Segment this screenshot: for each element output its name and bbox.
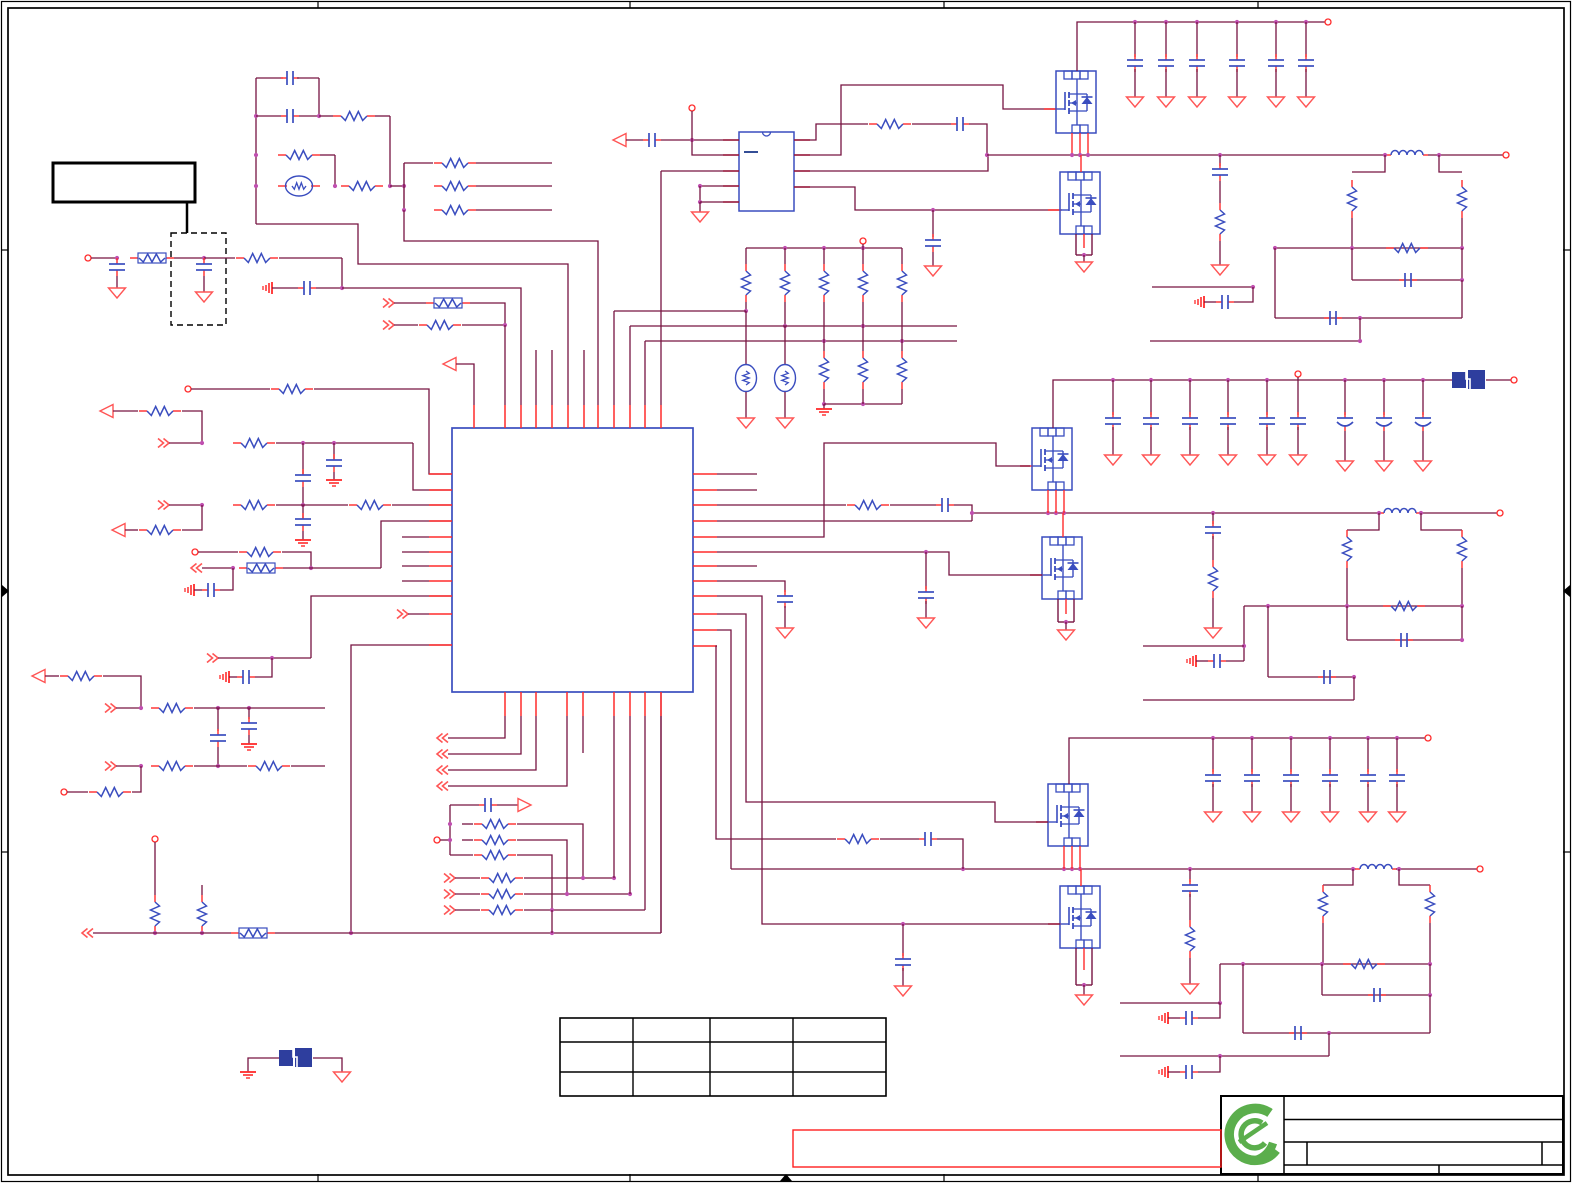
wire to IC pin	[392, 504, 452, 506]
off-page connector	[444, 890, 455, 899]
resistor R27	[481, 890, 523, 899]
wire	[1189, 869, 1191, 882]
capacitor C31	[1368, 988, 1386, 1002]
junction	[1265, 378, 1269, 382]
resistor R49	[1319, 885, 1328, 923]
wire	[174, 257, 204, 259]
resistor R32	[820, 264, 829, 302]
capacitor	[1244, 769, 1260, 787]
capacitor C16	[925, 234, 941, 252]
resistor R16	[60, 672, 102, 681]
connector pin J10	[1503, 152, 1509, 158]
ground	[1182, 984, 1199, 994]
off-page connector	[437, 782, 448, 791]
wire	[311, 596, 452, 658]
wire	[1143, 645, 1244, 647]
wire	[823, 389, 825, 404]
capacitor	[1283, 769, 1299, 787]
junction	[1289, 736, 1293, 740]
junction	[1164, 20, 1168, 24]
junction	[254, 184, 258, 188]
resistor R33	[859, 264, 868, 302]
wire	[1219, 964, 1221, 1003]
wire	[1227, 427, 1229, 455]
junction	[333, 184, 337, 188]
junction	[301, 441, 305, 445]
wire	[1461, 218, 1463, 248]
wire	[299, 115, 319, 117]
wire	[1134, 69, 1136, 97]
wire	[1305, 69, 1307, 97]
wire	[334, 155, 336, 186]
wire	[1120, 1002, 1220, 1004]
junction	[612, 876, 616, 880]
wire	[1329, 784, 1331, 812]
capacitor C26	[1208, 654, 1226, 668]
junction	[1235, 20, 1239, 24]
resistor R37	[898, 351, 907, 389]
wire	[862, 389, 864, 404]
Q6 drain stub	[1080, 869, 1082, 886]
junction	[1327, 1031, 1331, 1035]
input port	[112, 524, 125, 537]
wire to IC pin	[644, 341, 646, 405]
company logo	[1229, 1108, 1276, 1160]
junction	[1358, 339, 1362, 343]
wire	[103, 676, 141, 708]
wire to IC pin	[660, 171, 662, 405]
junction	[1383, 153, 1387, 157]
wire	[1065, 622, 1067, 630]
wire	[390, 185, 404, 187]
junction	[1242, 644, 1246, 648]
wire	[1251, 738, 1253, 772]
capacitor C23	[1205, 521, 1221, 539]
junction	[1218, 1001, 1222, 1005]
wire to IC pin	[413, 443, 452, 490]
node SW3	[731, 868, 1356, 870]
wire to IC pin	[314, 389, 452, 474]
capacitor C18	[1399, 273, 1417, 287]
ground	[777, 418, 794, 428]
wire	[1266, 380, 1268, 415]
capacitor C21	[936, 498, 954, 512]
wire	[1290, 784, 1292, 812]
IC U1 right pins	[693, 474, 717, 646]
wire	[1268, 676, 1354, 678]
junction	[1218, 153, 1222, 157]
resistor R21	[151, 895, 160, 933]
wire	[394, 324, 418, 326]
wire to IC pin	[504, 325, 506, 405]
wire	[1429, 923, 1431, 964]
input port	[443, 358, 456, 371]
wire	[824, 403, 902, 405]
chassis ground	[185, 584, 194, 596]
wire	[937, 839, 963, 869]
polarized capacitor	[1376, 412, 1392, 431]
fuse F3	[239, 563, 283, 573]
wire	[455, 909, 480, 911]
capacitor C10	[237, 670, 255, 684]
junction	[1064, 620, 1068, 624]
node bus fan	[403, 163, 405, 210]
ground	[1322, 812, 1339, 822]
resistor R23	[474, 820, 516, 829]
wire	[524, 893, 630, 895]
capacitor C12	[241, 717, 257, 735]
wire	[517, 840, 567, 894]
wire	[1323, 869, 1353, 885]
wire	[717, 630, 731, 869]
wire	[229, 676, 237, 678]
wire	[272, 287, 298, 289]
wire	[1421, 513, 1462, 530]
ground	[1283, 812, 1300, 822]
wire	[784, 326, 786, 365]
wire	[302, 505, 304, 518]
wire	[692, 111, 739, 155]
wire	[1244, 605, 1462, 607]
wire	[125, 529, 138, 531]
wire	[901, 248, 903, 264]
chassis ground	[1195, 296, 1204, 308]
junction	[200, 931, 204, 935]
capacitor C36	[777, 590, 793, 608]
junction	[822, 402, 826, 406]
wire	[217, 708, 219, 731]
junction	[1226, 378, 1230, 382]
junction	[1149, 378, 1153, 382]
wire	[660, 716, 662, 933]
wire	[784, 248, 786, 264]
Q2 drain stub	[1080, 155, 1082, 172]
capacitor C5	[298, 281, 316, 295]
wire	[1396, 738, 1398, 772]
ground	[1389, 812, 1406, 822]
wire	[375, 115, 390, 117]
resistor R47	[837, 835, 879, 844]
off-page connector	[158, 439, 169, 448]
wire	[1322, 923, 1324, 964]
junction	[448, 838, 452, 842]
wire	[448, 716, 536, 770]
wire	[1189, 380, 1191, 415]
connector pin J15	[1477, 866, 1483, 872]
capacitor C30	[1182, 879, 1198, 897]
capacitor	[1143, 412, 1159, 430]
junction	[1345, 604, 1349, 608]
wire	[1347, 639, 1462, 641]
transistor Q5	[1048, 784, 1088, 846]
wire	[932, 210, 934, 237]
junction	[581, 876, 585, 880]
resistor R24	[474, 836, 516, 845]
wire	[302, 487, 304, 505]
wire to IC pin	[342, 288, 521, 405]
resistor R45	[1458, 530, 1467, 568]
wire	[1275, 22, 1277, 57]
wire to IC pin	[256, 224, 568, 405]
IC U1 top pins	[474, 405, 661, 428]
wire	[319, 115, 333, 117]
wire	[116, 765, 141, 767]
power ground	[240, 1072, 256, 1078]
wire	[524, 877, 614, 879]
junction	[1358, 316, 1362, 320]
resistor R26	[481, 874, 523, 883]
capacitor	[1360, 769, 1376, 787]
ground	[1376, 461, 1393, 471]
junction	[1395, 736, 1399, 740]
resistor R35	[820, 351, 829, 389]
wire	[699, 186, 701, 202]
transistor Q2	[1060, 172, 1100, 234]
wire	[1329, 738, 1331, 772]
wire	[282, 552, 311, 568]
capacitor C11	[210, 729, 226, 747]
junction	[1086, 153, 1090, 157]
node VIN3 rail	[1069, 738, 1425, 784]
transistor Q6	[1060, 886, 1100, 948]
junction	[309, 566, 313, 570]
junction	[1382, 378, 1386, 382]
wire	[1267, 606, 1269, 677]
wire	[182, 411, 202, 443]
node VIN2 rail	[1053, 380, 1452, 428]
chassis ground	[220, 671, 229, 683]
wire	[1227, 380, 1229, 415]
fuse F1	[130, 253, 174, 263]
junction	[698, 184, 702, 188]
off-page connector	[397, 610, 408, 619]
resistor R51	[1343, 960, 1385, 969]
junction	[139, 764, 143, 768]
junction	[216, 764, 220, 768]
wire	[717, 504, 846, 506]
wire	[517, 824, 583, 878]
junction	[1266, 604, 1270, 608]
resistor R11	[233, 439, 275, 448]
capacitor	[1220, 412, 1236, 430]
wire	[1196, 69, 1198, 97]
junction	[1460, 604, 1464, 608]
wire	[462, 839, 473, 841]
wire	[248, 708, 250, 719]
polarized capacitor	[1337, 412, 1353, 431]
wire	[1346, 606, 1348, 640]
connector pin J9	[1325, 19, 1331, 25]
junction	[1419, 511, 1423, 515]
wire	[1439, 155, 1462, 172]
input port	[613, 134, 626, 147]
wire	[1383, 380, 1385, 415]
Q4 source tie	[1058, 599, 1074, 622]
ground	[1360, 812, 1377, 822]
junction	[1428, 962, 1432, 966]
connector pin J3	[192, 549, 198, 555]
power ground	[295, 540, 311, 546]
wire	[1275, 69, 1277, 97]
junction	[1304, 20, 1308, 24]
junction	[1250, 736, 1254, 740]
connector pin J4	[61, 789, 67, 795]
wire	[1236, 69, 1238, 97]
junction	[550, 931, 554, 935]
wire	[297, 77, 319, 79]
wire	[1421, 512, 1497, 514]
off-page connector	[444, 906, 455, 915]
ground	[1298, 97, 1315, 107]
wire stub	[535, 350, 537, 405]
wire	[182, 505, 202, 530]
wire	[1196, 660, 1208, 662]
connector pin J1	[85, 255, 91, 261]
capacitor C15	[951, 117, 969, 131]
wire	[1196, 22, 1198, 57]
junction	[861, 246, 865, 250]
junction	[985, 153, 989, 157]
wire	[1429, 964, 1431, 995]
resistor R30	[742, 264, 751, 302]
junction	[1111, 378, 1115, 382]
wire stub	[583, 350, 585, 405]
wire	[1396, 868, 1477, 870]
wire stub	[582, 716, 584, 753]
wire	[517, 855, 552, 910]
wire	[880, 838, 919, 840]
output port	[518, 799, 531, 812]
wire	[1083, 255, 1085, 262]
junction	[1211, 736, 1215, 740]
transistor Q1	[1056, 71, 1096, 133]
input port	[100, 405, 113, 418]
wire	[1353, 677, 1355, 700]
wire	[1212, 598, 1214, 628]
wire	[1396, 784, 1398, 812]
wire	[116, 707, 141, 709]
wire	[1212, 536, 1214, 560]
resistor R41	[1386, 244, 1428, 253]
wire	[1461, 568, 1463, 606]
wire	[1351, 218, 1353, 248]
junction	[388, 184, 392, 188]
junction	[332, 441, 336, 445]
junction	[783, 324, 787, 328]
wire	[291, 765, 325, 767]
wire	[661, 139, 739, 141]
junction	[1352, 675, 1356, 679]
wire	[169, 442, 202, 444]
junction	[1078, 867, 1082, 871]
junction	[961, 867, 965, 871]
ground	[1244, 812, 1261, 822]
capacitor C3	[109, 258, 125, 276]
U2 pin stubs	[723, 140, 810, 202]
connector pin J14	[1425, 735, 1431, 741]
wire	[275, 932, 661, 934]
wire to IC pin	[660, 692, 662, 933]
resistor R50	[1426, 885, 1435, 923]
ground	[1058, 630, 1075, 640]
wire to Q1 gate	[794, 85, 1056, 155]
junction	[254, 114, 258, 118]
wire	[1189, 958, 1191, 984]
wire	[198, 551, 238, 553]
fuse F2	[426, 298, 470, 308]
ground	[1212, 265, 1229, 275]
chassis ground	[1159, 1012, 1168, 1024]
resistor R15	[239, 548, 281, 557]
ground	[777, 628, 794, 638]
wire	[1461, 280, 1463, 318]
junction	[1428, 993, 1432, 997]
wire	[1367, 738, 1369, 772]
off-page connector	[158, 501, 169, 510]
wire	[823, 404, 825, 409]
junction	[231, 566, 235, 570]
wire	[1212, 513, 1214, 524]
revision box	[793, 1130, 1221, 1167]
wire	[194, 765, 247, 767]
off-page connector	[437, 750, 448, 759]
capacitor	[1127, 54, 1143, 72]
resistor R7	[236, 254, 278, 263]
capacitor C1	[281, 71, 299, 85]
connector pin J11	[1511, 377, 1517, 383]
dashed optional box	[171, 233, 226, 325]
junction	[340, 286, 344, 290]
ground	[109, 288, 126, 298]
wire	[313, 1058, 342, 1072]
wire	[218, 657, 311, 659]
wire	[455, 877, 480, 879]
wire	[717, 520, 972, 522]
junction	[254, 153, 258, 157]
wire	[1143, 699, 1354, 701]
wire	[1220, 963, 1430, 965]
wire	[497, 804, 518, 806]
wire	[113, 410, 138, 412]
resistor R6	[434, 206, 476, 215]
wire	[256, 77, 283, 79]
wire	[1189, 894, 1191, 920]
annotation box stem	[186, 202, 189, 233]
wire	[1243, 1032, 1430, 1034]
wire	[699, 202, 701, 212]
wire	[93, 932, 231, 934]
junction	[349, 931, 353, 935]
junction	[200, 503, 204, 507]
polarized capacitor	[1415, 412, 1431, 431]
resistor R29	[869, 120, 911, 129]
ground	[1220, 455, 1237, 465]
junction	[924, 550, 928, 554]
junction	[1460, 246, 1464, 250]
wire	[1344, 431, 1346, 461]
off-page connector	[444, 874, 455, 883]
wire	[1189, 427, 1191, 455]
wire	[661, 170, 739, 172]
wire	[191, 388, 270, 390]
wire	[1168, 1017, 1180, 1019]
node bus left	[255, 78, 257, 224]
wire	[248, 1058, 279, 1072]
resistor R12	[233, 501, 275, 510]
wire	[902, 968, 904, 986]
resistor R17	[151, 704, 193, 713]
wire	[1428, 154, 1503, 156]
